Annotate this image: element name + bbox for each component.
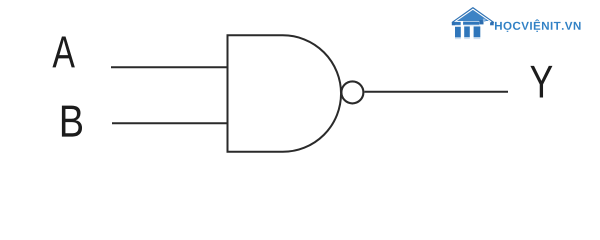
input label A [52,36,74,67]
middle pillar [464,26,470,37]
faint shadow under T stem [474,37,481,39]
wire Y (bubble to output label) [365,91,509,93]
left eave tip [452,22,456,25]
right eave tip [490,22,494,25]
faint gap shading under crossbar [464,25,481,26]
logo text HOCVIENIT.VN [495,19,581,31]
white inner roof line [455,9,492,22]
faint shadow under i stem [455,37,461,39]
roof deck fill of house icon [455,9,492,21]
faint shadow under middle pillar [464,37,470,39]
output label Y [530,66,552,98]
logo: hocvienit.vn house icon [452,8,494,39]
letter T stem pillar [474,26,481,37]
wire B (input B to gate) [112,122,228,124]
wire A (input A to gate) [111,66,228,68]
light nub at right eave [483,19,486,22]
letter i stem pillar [455,27,461,38]
letter i dot [455,22,461,25]
input label B [62,106,82,137]
dark square at crossbar right [479,20,483,24]
letter T crossbar [463,22,479,25]
NAND gate U1 (AND-shape body) [228,35,342,152]
faint gap shading under dot [455,25,461,27]
roof gable stroke [452,8,493,23]
inversion bubble at gate output [341,81,363,103]
